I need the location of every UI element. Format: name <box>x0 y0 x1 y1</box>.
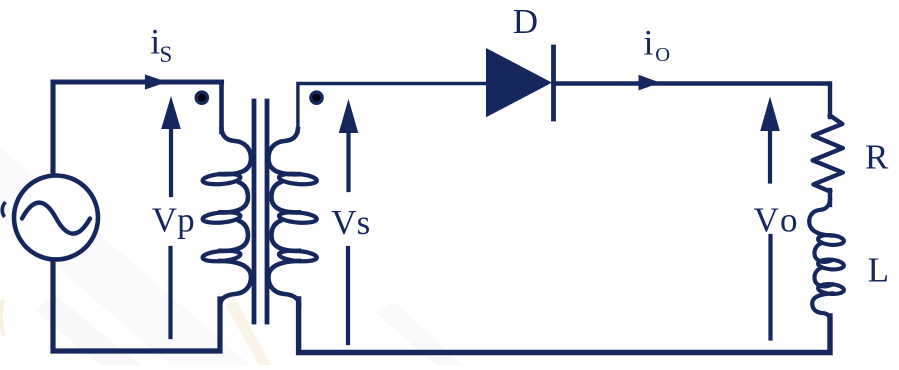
background watermark cream band <box>226 298 271 365</box>
diode D cathode bar <box>551 47 556 119</box>
transformer primary winding loop 1 <box>202 172 241 185</box>
background watermark band 2 <box>35 295 140 365</box>
wire: resistor to inductor link <box>828 190 832 205</box>
svg-text:V: V <box>754 201 779 240</box>
wire: bottom-left from AC source to primary bottom <box>53 260 220 351</box>
diode D triangle <box>486 48 552 117</box>
arrow Vp head <box>161 96 181 129</box>
wire: top-left from AC source to primary, with corner <box>53 82 222 176</box>
transformer primary winding loop 3 <box>202 249 241 262</box>
inductor L loop 2 <box>818 259 845 271</box>
left-edge cropped swirl mark <box>2 202 5 217</box>
transformer secondary winding loop 1 <box>279 172 318 185</box>
label iO <box>644 23 671 66</box>
svg-text:S: S <box>160 42 173 67</box>
arrow Vp lower line <box>168 248 172 337</box>
svg-text:Vp: Vp <box>152 201 195 240</box>
resistor R zigzag <box>813 116 843 192</box>
inductor L winding bumps <box>809 200 832 320</box>
svg-text:R: R <box>865 138 889 177</box>
svg-text:O: O <box>655 44 670 66</box>
transformer primary winding loop 2 <box>202 211 241 224</box>
label Vo <box>754 201 798 240</box>
arrow iS on top-left wire <box>145 74 167 89</box>
arrow Vs upper line <box>346 128 350 190</box>
background watermark cream arc <box>1 300 4 336</box>
transformer core line right <box>265 101 270 322</box>
background watermark band 3 <box>375 302 462 365</box>
transformer secondary winding loop 3 <box>279 249 318 262</box>
arrow Vs lower line <box>346 248 350 343</box>
svg-text:L: L <box>868 250 889 289</box>
AC source sine wave <box>22 203 90 234</box>
AC source V1 circle <box>14 176 98 260</box>
label iS <box>150 21 172 67</box>
arrow Vp upper line <box>169 124 173 195</box>
svg-text:Vs: Vs <box>331 203 370 242</box>
wire: primary top terminal <box>219 82 224 132</box>
arrow Vo head <box>760 97 780 132</box>
svg-text:i: i <box>644 23 654 63</box>
inductor L loop 1 <box>818 234 845 246</box>
polarity dot secondary <box>309 90 324 105</box>
inductor L loop 3 <box>818 283 845 295</box>
arrow Vo lower line <box>768 236 772 339</box>
wire: bottom-right bus from secondary to load <box>299 299 830 353</box>
transformer secondary winding bumps <box>268 129 299 305</box>
transformer core line left <box>252 101 257 322</box>
wire: secondary top terminal and thin wire to diode <box>298 84 487 133</box>
arrow Vs head <box>339 99 359 133</box>
arrow Vo upper line <box>768 126 772 182</box>
background watermark band <box>0 130 250 365</box>
polarity dot primary <box>195 90 210 105</box>
svg-text:o: o <box>780 201 798 240</box>
arrow iO on output wire <box>639 75 661 91</box>
transformer secondary winding loop 2 <box>279 211 318 224</box>
svg-text:D: D <box>513 2 538 41</box>
wire: diode cathode to top-right corner down to resistor <box>554 84 830 118</box>
transformer primary winding bumps <box>220 129 251 305</box>
